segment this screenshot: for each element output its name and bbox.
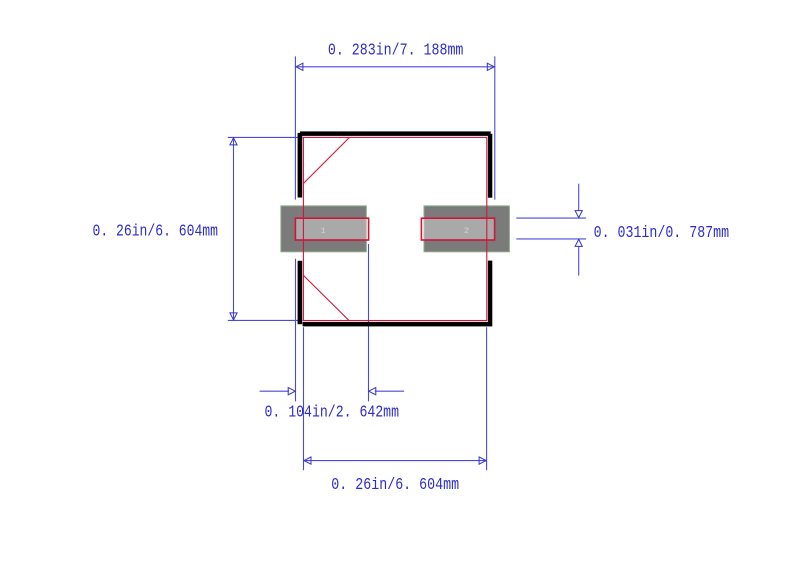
pad 1 solder area (inner) (295, 218, 368, 240)
dimension A extension line left (top width dim) (294, 56, 296, 199)
dimension A arrowhead right (487, 63, 494, 70)
dimension D extension line right (368, 244, 370, 401)
component outline left bar upper segment (298, 133, 303, 198)
pad 1 copper (outer) (281, 206, 366, 252)
dimension A arrowhead left (296, 63, 303, 70)
dimension E line (304, 460, 487, 462)
component outline top bar (300, 131, 491, 136)
dimension D extension line left (pad width dim) (295, 259, 297, 402)
dimension D leader line left (260, 390, 289, 392)
dimension C leader line upper (578, 184, 580, 211)
component body outline (silkscreen) (303, 137, 486, 320)
dimension B extension line top (left height dim) (228, 136, 303, 138)
dimension B extension line bottom (228, 319, 303, 321)
svg-text:0. 26in/6. 604mm: 0. 26in/6. 604mm (331, 475, 459, 494)
dimension D leader line right (375, 390, 404, 392)
dimension C leader line lower (578, 247, 580, 276)
dimension E arrowhead right (479, 457, 486, 464)
dimension D arrowhead right-pointing (288, 388, 295, 395)
component outline right bar upper segment (488, 134, 492, 198)
dimension B line (233, 137, 235, 320)
component outline left bar lower segment (298, 261, 303, 324)
svg-text:2: 2 (464, 226, 469, 236)
component outline bottom bar (303, 322, 490, 327)
pad 2 solder area (inner) (421, 218, 494, 240)
dimension D arrowhead left-pointing (369, 388, 376, 395)
component outline right bar lower segment (488, 261, 492, 327)
pad 2 copper (outer) (424, 206, 509, 252)
dimension A line (295, 66, 494, 68)
dimension B arrowhead top (230, 138, 237, 145)
dimension C arrowhead down (575, 211, 582, 218)
dimension C extension line top (pad height dim right) (516, 217, 586, 219)
svg-text:0. 26in/6. 604mm: 0. 26in/6. 604mm (93, 222, 219, 241)
dimension C extension line bottom (516, 238, 586, 240)
svg-text:1: 1 (321, 226, 326, 236)
dimension E extension line right (486, 327, 488, 470)
polarity chamfer diagonal bottom-left (303, 275, 349, 320)
dimension B arrowhead bottom (230, 313, 237, 320)
svg-text:0. 031in/0. 787mm: 0. 031in/0. 787mm (594, 223, 730, 242)
dimension C arrowhead up (575, 239, 582, 246)
dimension E arrowhead left (304, 457, 311, 464)
dimension E extension line left (bottom width dim) (303, 327, 305, 470)
svg-text:0. 104in/2. 642mm: 0. 104in/2. 642mm (265, 402, 400, 421)
svg-text:0. 283in/7. 188mm: 0. 283in/7. 188mm (328, 41, 464, 60)
polarity chamfer diagonal top-left (303, 137, 349, 183)
dimension A extension line right (494, 56, 496, 199)
